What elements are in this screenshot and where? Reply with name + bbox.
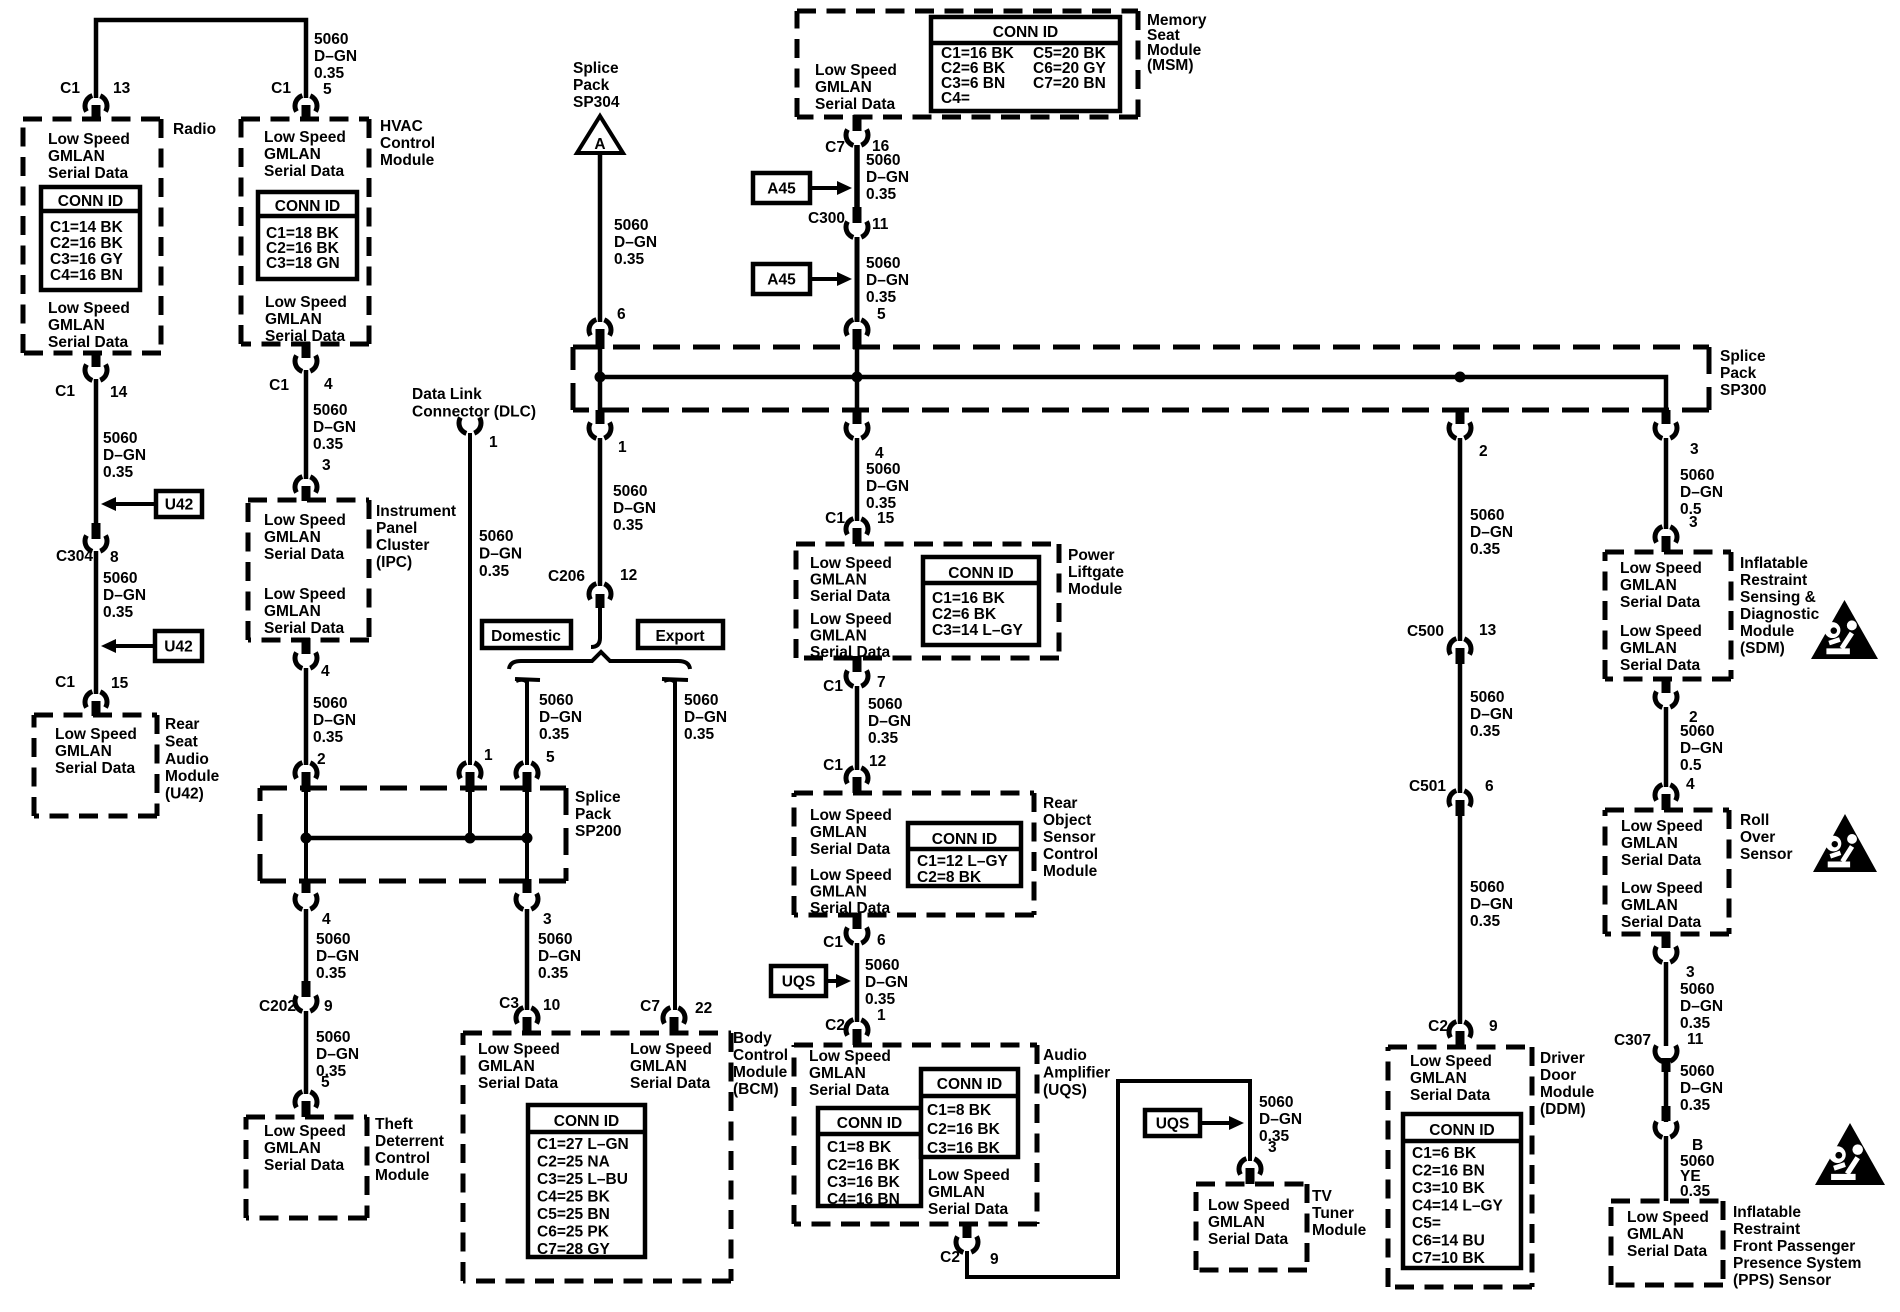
module Inflatable Restraint Front Passenger Presence System (PPS) Sensor: [1611, 1199, 1723, 1204]
svg-text:Serial Data: Serial Data: [48, 334, 129, 351]
svg-text:Module: Module: [1540, 1084, 1595, 1101]
svg-text:C7: C7: [640, 998, 660, 1015]
svg-text:C4=16 BN: C4=16 BN: [827, 1191, 900, 1208]
svg-text:5: 5: [877, 306, 886, 323]
svg-text:Power: Power: [1068, 547, 1115, 564]
svg-text:5060: 5060: [866, 152, 900, 169]
svg-text:GMLAN: GMLAN: [810, 628, 867, 645]
connector C1 pin 7 (Power Liftgate bottom): [853, 656, 862, 672]
arrow A45 upper: [753, 173, 810, 203]
wire SP200 vertical DLC drop: [468, 790, 472, 838]
svg-text:GMLAN: GMLAN: [815, 79, 872, 96]
wire pin6 into SP300 bus: [598, 345, 603, 412]
icon SRS triangle (SDM): [1811, 600, 1878, 659]
svg-text:8: 8: [110, 549, 119, 566]
svg-text:C307: C307: [1614, 1032, 1651, 1049]
svg-text:CONN ID: CONN ID: [937, 1076, 1002, 1093]
wire C206 to split: [591, 607, 600, 647]
connector pin 4 (Roll Over top): [1655, 784, 1677, 801]
svg-text:(IPC): (IPC): [376, 554, 412, 571]
svg-text:CONN ID: CONN ID: [932, 831, 997, 848]
connector pin 3 (TV Tuner): [1239, 1158, 1261, 1175]
svg-text:D–GN: D–GN: [1470, 896, 1513, 913]
svg-text:0.35: 0.35: [866, 289, 897, 306]
svg-text:Low Speed: Low Speed: [810, 807, 892, 824]
svg-text:5060: 5060: [316, 1029, 350, 1046]
svg-text:SP200: SP200: [575, 823, 622, 840]
connector pin 3 (SDM top): [1655, 526, 1677, 543]
svg-text:CONN ID: CONN ID: [554, 1113, 619, 1130]
svg-text:Serial Data: Serial Data: [264, 1157, 345, 1174]
svg-text:D–GN: D–GN: [479, 546, 522, 563]
svg-text:Serial Data: Serial Data: [1627, 1243, 1708, 1260]
svg-text:Serial Data: Serial Data: [1208, 1231, 1289, 1248]
svg-text:GMLAN: GMLAN: [1410, 1070, 1467, 1087]
module HVAC Control Module: [241, 117, 369, 122]
svg-text:5060: 5060: [866, 461, 900, 478]
svg-text:Audio: Audio: [1043, 1047, 1087, 1064]
svg-text:Control: Control: [1043, 846, 1098, 863]
svg-text:C3=16 BK: C3=16 BK: [927, 1140, 1001, 1157]
svg-text:5060: 5060: [479, 528, 513, 545]
svg-text:D–GN: D–GN: [538, 948, 581, 965]
svg-text:D–GN: D–GN: [613, 500, 656, 517]
svg-text:2: 2: [317, 751, 326, 768]
svg-text:U42: U42: [164, 639, 192, 656]
connector C1 pin 5 (HVAC): [295, 95, 317, 112]
svg-text:5060: 5060: [1680, 981, 1714, 998]
conn-id table Rear Object Sensor: [908, 823, 1021, 886]
svg-text:6: 6: [1485, 778, 1494, 795]
connector C1 pin 6 (Rear Object Sensor bottom): [853, 913, 862, 929]
svg-text:0.35: 0.35: [868, 730, 899, 747]
svg-text:Serial Data: Serial Data: [264, 620, 345, 637]
svg-text:0.35: 0.35: [866, 186, 897, 203]
label Export: [638, 621, 723, 648]
svg-text:C1: C1: [823, 934, 843, 951]
svg-text:D–GN: D–GN: [866, 478, 909, 495]
wire C300 to SP300 pin 5: [855, 237, 860, 322]
svg-text:B: B: [1692, 1137, 1703, 1154]
svg-text:Serial Data: Serial Data: [1410, 1087, 1491, 1104]
svg-text:5060: 5060: [538, 931, 572, 948]
svg-text:0.35: 0.35: [1680, 1015, 1711, 1032]
svg-text:C1: C1: [55, 383, 75, 400]
svg-text:C1=27 L–GN: C1=27 L–GN: [537, 1136, 629, 1153]
svg-text:Serial Data: Serial Data: [264, 546, 345, 563]
svg-text:CONN ID: CONN ID: [1429, 1122, 1494, 1139]
svg-text:Low Speed: Low Speed: [1621, 880, 1703, 897]
icon SRS triangle (PPS): [1815, 1123, 1885, 1185]
wire Rear Object C1-6 to Audio Amp C2-1: [855, 943, 860, 1022]
junction dot SP300 at MSM drop: [852, 372, 863, 383]
junction dot SP200 right: [522, 833, 533, 844]
svg-text:GMLAN: GMLAN: [809, 1065, 866, 1082]
connector pin 3 (Roll Over bottom): [1662, 932, 1671, 948]
splice pack SP200 box: [260, 786, 566, 791]
svg-text:Door: Door: [1540, 1067, 1576, 1084]
svg-text:5060: 5060: [313, 402, 347, 419]
svg-text:(PPS) Sensor: (PPS) Sensor: [1733, 1272, 1831, 1289]
svg-text:0.35: 0.35: [1470, 913, 1501, 930]
svg-text:GMLAN: GMLAN: [1627, 1226, 1684, 1243]
connector C304 pin 8: [92, 523, 101, 539]
conn-id table Radio: [41, 187, 140, 290]
svg-text:Restraint: Restraint: [1740, 572, 1807, 589]
svg-text:TV: TV: [1312, 1188, 1332, 1205]
svg-text:D–GN: D–GN: [614, 234, 657, 251]
svg-text:D–GN: D–GN: [313, 419, 356, 436]
svg-text:D–GN: D–GN: [1680, 740, 1723, 757]
svg-text:Serial Data: Serial Data: [1621, 852, 1702, 869]
svg-text:5060: 5060: [1680, 1063, 1714, 1080]
svg-text:A45: A45: [767, 272, 796, 289]
svg-text:1: 1: [489, 434, 498, 451]
svg-text:C2=8 BK: C2=8 BK: [917, 869, 982, 886]
module Instrument Panel Cluster (IPC): [248, 498, 369, 503]
svg-text:C1: C1: [823, 678, 843, 695]
wire MSM C7-16 to C300: [854, 145, 860, 209]
svg-text:Diagnostic: Diagnostic: [1740, 606, 1820, 623]
svg-text:11: 11: [872, 216, 889, 233]
svg-text:C7=10 BK: C7=10 BK: [1412, 1250, 1486, 1267]
svg-text:0.35: 0.35: [1470, 541, 1501, 558]
wire SP300 pin3 to SDM pin 3: [1664, 438, 1669, 529]
svg-text:GMLAN: GMLAN: [55, 743, 112, 760]
svg-text:4: 4: [1686, 776, 1695, 793]
svg-text:5060: 5060: [314, 31, 348, 48]
svg-text:0.35: 0.35: [103, 604, 134, 621]
svg-text:Low Speed: Low Speed: [55, 726, 137, 743]
svg-text:GMLAN: GMLAN: [264, 529, 321, 546]
svg-text:UQS: UQS: [1156, 1116, 1190, 1133]
svg-text:C1: C1: [823, 757, 843, 774]
svg-text:0.35: 0.35: [1680, 1183, 1711, 1200]
splice pack SP300 box: [573, 345, 1709, 350]
svg-text:Module: Module: [1068, 581, 1123, 598]
svg-text:D–GN: D–GN: [865, 974, 908, 991]
wire MSM drop through SP300 bus: [855, 345, 860, 412]
svg-text:Audio: Audio: [165, 751, 209, 768]
svg-text:Low Speed: Low Speed: [810, 555, 892, 572]
svg-text:Pack: Pack: [1720, 365, 1757, 382]
svg-text:5: 5: [321, 1074, 330, 1091]
svg-text:Low Speed: Low Speed: [1208, 1197, 1290, 1214]
svg-text:Low Speed: Low Speed: [265, 294, 347, 311]
junction dot SP300 at SP304 drop: [595, 372, 606, 383]
svg-text:0.35: 0.35: [314, 65, 345, 82]
svg-text:Roll: Roll: [1740, 812, 1769, 829]
svg-text:C7=28 GY: C7=28 GY: [537, 1241, 610, 1258]
svg-text:CONN ID: CONN ID: [58, 193, 123, 210]
svg-text:C4=25 BK: C4=25 BK: [537, 1189, 611, 1206]
svg-text:D–GN: D–GN: [1259, 1111, 1302, 1128]
module Driver Door Module (DDM): [1388, 1045, 1532, 1050]
svg-text:SP304: SP304: [573, 94, 620, 111]
svg-text:GMLAN: GMLAN: [264, 603, 321, 620]
svg-text:0.35: 0.35: [865, 991, 896, 1008]
svg-text:Amplifier: Amplifier: [1043, 1065, 1110, 1082]
connector C1 pin 4 (HVAC bottom): [302, 342, 311, 358]
svg-text:C1=14 BK: C1=14 BK: [50, 219, 124, 236]
svg-text:Liftgate: Liftgate: [1068, 564, 1124, 581]
svg-text:C6=25 PK: C6=25 PK: [537, 1224, 610, 1241]
svg-text:Serial Data: Serial Data: [809, 1082, 890, 1099]
svg-text:GMLAN: GMLAN: [928, 1184, 985, 1201]
wire HVAC C1-4 to IPC pin 3: [304, 370, 309, 479]
splice pack SP304 triangle A: [577, 116, 623, 153]
svg-text:Sensing &: Sensing &: [1740, 589, 1816, 606]
svg-text:C3=10 BK: C3=10 BK: [1412, 1180, 1486, 1197]
svg-text:(MSM): (MSM): [1147, 57, 1194, 74]
svg-text:Module: Module: [1312, 1222, 1367, 1239]
connector DLC pin 1: [459, 418, 481, 435]
svg-text:C1=12 L–GY: C1=12 L–GY: [917, 853, 1009, 870]
svg-text:C4=: C4=: [941, 90, 970, 107]
svg-text:Serial Data: Serial Data: [1621, 914, 1702, 931]
svg-text:0.35: 0.35: [313, 729, 344, 746]
svg-text:Control: Control: [380, 135, 435, 152]
svg-text:3: 3: [1268, 1139, 1277, 1156]
svg-text:C1: C1: [271, 80, 291, 97]
arrow A45 lower: [753, 264, 810, 294]
svg-text:Inflatable: Inflatable: [1740, 555, 1808, 572]
connector pin 1 (SP300 bottom, C206 drop): [596, 410, 605, 424]
junction dot SP200 left: [301, 833, 312, 844]
svg-text:GMLAN: GMLAN: [264, 1140, 321, 1157]
svg-text:GMLAN: GMLAN: [264, 146, 321, 163]
connector pin 5 (Theft Deterrent): [295, 1091, 317, 1108]
svg-text:Seat: Seat: [165, 733, 198, 750]
svg-text:D–GN: D–GN: [868, 713, 911, 730]
svg-text:GMLAN: GMLAN: [810, 824, 867, 841]
connector C1 pin 14 (Radio bottom): [92, 351, 101, 367]
svg-text:GMLAN: GMLAN: [1620, 577, 1677, 594]
svg-text:5060: 5060: [866, 255, 900, 272]
svg-text:0.5: 0.5: [1680, 757, 1702, 774]
svg-text:(BCM): (BCM): [733, 1081, 779, 1098]
connector C1 pin 13 (Radio): [85, 95, 107, 112]
svg-text:0.35: 0.35: [103, 464, 134, 481]
svg-text:5060: 5060: [103, 570, 137, 587]
module Inflatable Restraint SDM: [1605, 550, 1731, 555]
svg-text:Panel: Panel: [376, 520, 417, 537]
svg-text:C2: C2: [825, 1017, 845, 1034]
svg-text:Low Speed: Low Speed: [264, 586, 346, 603]
wire split brace: [509, 652, 690, 669]
wire SP300 bus: [600, 377, 1666, 416]
wire Domestic branch: [516, 680, 527, 765]
svg-text:1: 1: [484, 747, 493, 764]
svg-text:4: 4: [322, 911, 331, 928]
svg-text:9: 9: [324, 998, 333, 1015]
svg-text:5060: 5060: [313, 695, 347, 712]
svg-text:Module: Module: [380, 152, 435, 169]
wire PLM C1-7 to Rear Object Sensor C1-12: [855, 686, 860, 770]
wire C202 to Theft Deterrent pin 5: [304, 1011, 309, 1094]
svg-text:15: 15: [111, 675, 129, 692]
svg-text:0.35: 0.35: [313, 436, 344, 453]
svg-text:Low Speed: Low Speed: [48, 300, 130, 317]
svg-text:CONN ID: CONN ID: [275, 198, 340, 215]
svg-text:D–GN: D–GN: [103, 587, 146, 604]
wire Export branch: [664, 680, 675, 1010]
wire SP300 pin1 to C206: [598, 438, 603, 586]
svg-text:A45: A45: [767, 181, 796, 198]
svg-text:0.35: 0.35: [684, 726, 715, 743]
conn-id table DDM: [1403, 1114, 1521, 1268]
arrow U42 upper: [156, 491, 202, 517]
wire SP200 bus: [306, 836, 527, 841]
arrow UQS right: [1145, 1110, 1200, 1136]
connector C2 pin 9 (Audio Amplifier bottom): [963, 1222, 972, 1238]
svg-text:C1: C1: [60, 80, 80, 97]
svg-text:C1: C1: [269, 377, 289, 394]
svg-text:Theft: Theft: [375, 1116, 413, 1133]
svg-text:3: 3: [543, 911, 552, 928]
svg-text:Low Speed: Low Speed: [264, 1123, 346, 1140]
svg-text:C4=16 BN: C4=16 BN: [50, 267, 123, 284]
svg-text:D–GN: D–GN: [1470, 706, 1513, 723]
svg-text:Presence System: Presence System: [1733, 1255, 1861, 1272]
svg-text:Pack: Pack: [573, 77, 610, 94]
svg-text:Serial Data: Serial Data: [810, 644, 891, 661]
svg-text:UQS: UQS: [782, 974, 816, 991]
svg-text:Low Speed: Low Speed: [1621, 818, 1703, 835]
svg-text:C1=6 BK: C1=6 BK: [1412, 1145, 1477, 1162]
svg-text:10: 10: [543, 997, 560, 1014]
svg-text:5060: 5060: [1680, 723, 1714, 740]
svg-text:GMLAN: GMLAN: [48, 148, 105, 165]
connector pin 4 (SP300 bottom, MSM drop): [853, 410, 862, 424]
svg-text:C3=14 L–GY: C3=14 L–GY: [932, 622, 1024, 639]
module Body Control Module (BCM): [463, 1031, 731, 1036]
svg-text:Serial Data: Serial Data: [48, 165, 129, 182]
svg-text:5060: 5060: [1470, 689, 1504, 706]
svg-text:GMLAN: GMLAN: [478, 1058, 535, 1075]
svg-text:D–GN: D–GN: [866, 169, 909, 186]
svg-text:Serial Data: Serial Data: [264, 163, 345, 180]
svg-text:(UQS): (UQS): [1043, 1082, 1087, 1099]
svg-text:Pack: Pack: [575, 806, 612, 823]
connector pin 4 (SP200 bottom): [302, 879, 311, 893]
svg-text:3: 3: [1689, 514, 1698, 531]
svg-text:9: 9: [1489, 1018, 1498, 1035]
svg-text:Low Speed: Low Speed: [264, 129, 346, 146]
svg-text:C300: C300: [808, 210, 845, 227]
conn-id table Audio Amplifier C1-C4: [818, 1108, 921, 1206]
svg-text:Low Speed: Low Speed: [1620, 623, 1702, 640]
svg-text:Splice: Splice: [575, 789, 621, 806]
svg-text:C206: C206: [548, 568, 585, 585]
svg-text:12: 12: [869, 753, 886, 770]
connector C1 pin 15 (Rear Seat Audio): [85, 691, 107, 708]
svg-text:Instrument: Instrument: [376, 503, 456, 520]
conn-id table HVAC: [258, 192, 357, 279]
svg-text:C7=20 BN: C7=20 BN: [1033, 75, 1106, 92]
svg-text:Low Speed: Low Speed: [1627, 1209, 1709, 1226]
svg-text:Serial Data: Serial Data: [810, 900, 891, 917]
svg-text:Deterrent: Deterrent: [375, 1133, 444, 1150]
wire C307 to connector B: [1664, 1072, 1669, 1122]
svg-text:C2=16 BN: C2=16 BN: [1412, 1163, 1485, 1180]
svg-text:C1: C1: [55, 674, 75, 691]
svg-text:Tuner: Tuner: [1312, 1205, 1354, 1222]
svg-text:C3=16 BK: C3=16 BK: [827, 1174, 901, 1191]
svg-text:Cluster: Cluster: [376, 537, 429, 554]
svg-text:0.35: 0.35: [613, 517, 644, 534]
svg-text:GMLAN: GMLAN: [1208, 1214, 1265, 1231]
svg-text:Low Speed: Low Speed: [928, 1167, 1010, 1184]
svg-text:CONN ID: CONN ID: [993, 24, 1058, 41]
svg-text:Over: Over: [1740, 829, 1775, 846]
svg-text:0.35: 0.35: [1680, 1097, 1711, 1114]
conn-id table Audio Amplifier C1-C3: [921, 1069, 1018, 1157]
wire SP200 vertical IPC drop: [304, 790, 308, 879]
svg-text:C2=6 BK: C2=6 BK: [932, 606, 997, 623]
wire C500 to C501: [1458, 664, 1463, 793]
svg-text:Module: Module: [1740, 623, 1795, 640]
svg-text:3: 3: [1690, 441, 1699, 458]
svg-text:13: 13: [1479, 622, 1497, 639]
svg-text:Domestic: Domestic: [491, 628, 561, 645]
svg-text:C7: C7: [825, 139, 845, 156]
svg-text:GMLAN: GMLAN: [630, 1058, 687, 1075]
svg-text:C2: C2: [940, 1249, 960, 1266]
svg-text:Serial Data: Serial Data: [815, 96, 896, 113]
wire SP200 vertical BCM drop: [525, 790, 529, 879]
svg-text:Serial Data: Serial Data: [478, 1075, 559, 1092]
wire Audio Amp C2-9 to TV Tuner pin 3: [967, 1081, 1250, 1277]
svg-text:SP300: SP300: [1720, 382, 1767, 399]
svg-text:C4=14 L–GY: C4=14 L–GY: [1412, 1198, 1504, 1215]
svg-text:5: 5: [546, 749, 555, 766]
svg-text:D–GN: D–GN: [1470, 524, 1513, 541]
arrow UQS left: [771, 966, 826, 996]
svg-text:Front Passenger: Front Passenger: [1733, 1238, 1855, 1255]
svg-text:C5=25 BN: C5=25 BN: [537, 1206, 610, 1223]
wire SP304 to SP300 pin 6: [598, 153, 603, 322]
svg-text:C3=25 L–BU: C3=25 L–BU: [537, 1171, 628, 1188]
svg-text:4: 4: [324, 376, 333, 393]
svg-text:0.35: 0.35: [539, 726, 570, 743]
svg-text:(SDM): (SDM): [1740, 640, 1785, 657]
connector B (PPS): [1662, 1106, 1671, 1121]
svg-text:Serial Data: Serial Data: [55, 760, 136, 777]
wire SP300 pin2 to C500: [1458, 438, 1463, 641]
svg-text:Splice: Splice: [1720, 348, 1766, 365]
svg-text:C2=25 NA: C2=25 NA: [537, 1154, 610, 1171]
module Roll Over Sensor: [1605, 808, 1729, 813]
svg-text:Low Speed: Low Speed: [810, 611, 892, 628]
svg-text:12: 12: [620, 567, 637, 584]
wire Radio C1-14 to C304: [94, 379, 99, 525]
svg-text:0.35: 0.35: [614, 251, 645, 268]
svg-text:Control: Control: [733, 1047, 788, 1064]
svg-text:C3=18 GN: C3=18 GN: [266, 255, 340, 272]
svg-text:Serial Data: Serial Data: [928, 1201, 1009, 1218]
svg-text:5060: 5060: [868, 696, 902, 713]
module Rear Seat Audio Module (U42): [34, 713, 157, 718]
svg-text:14: 14: [110, 384, 128, 401]
svg-text:Serial Data: Serial Data: [810, 588, 891, 605]
module Radio: [23, 117, 161, 122]
svg-text:Radio: Radio: [173, 121, 216, 138]
svg-text:C304: C304: [56, 548, 93, 565]
svg-text:Inflatable: Inflatable: [1733, 1204, 1801, 1221]
svg-text:C202: C202: [259, 998, 296, 1015]
connector C7 pin 16 (MSM bottom): [853, 115, 862, 131]
